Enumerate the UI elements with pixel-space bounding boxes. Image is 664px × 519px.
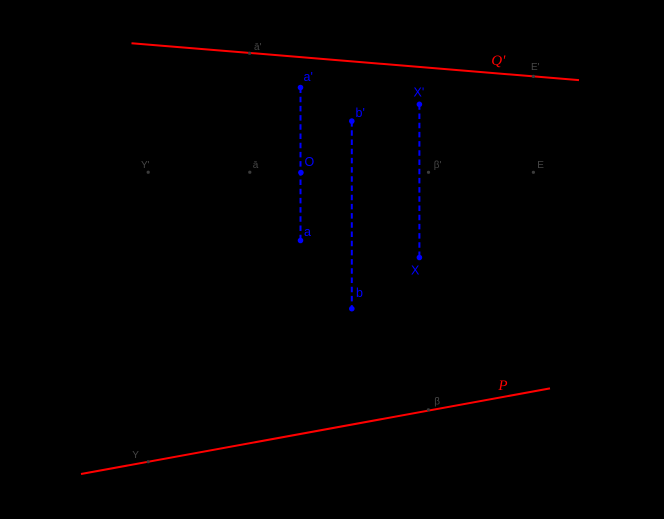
svg-text:E: E	[537, 160, 544, 171]
svg-text:Q': Q'	[491, 53, 506, 69]
svg-text:b: b	[356, 286, 363, 300]
svg-text:E': E'	[531, 62, 540, 73]
svg-text:Y': Y'	[141, 160, 150, 171]
svg-text:b': b'	[356, 106, 365, 120]
svg-text:ā: ā	[253, 160, 259, 171]
svg-text:β': β'	[434, 160, 442, 171]
svg-text:X: X	[411, 264, 420, 278]
svg-text:β: β	[434, 397, 440, 408]
svg-text:Y: Y	[132, 450, 139, 461]
svg-text:O: O	[305, 155, 315, 169]
svg-text:a': a'	[304, 70, 313, 84]
svg-text:a: a	[304, 225, 311, 239]
svg-text:P: P	[497, 378, 507, 394]
svg-text:X': X'	[414, 86, 425, 100]
svg-text:ā': ā'	[254, 42, 262, 53]
